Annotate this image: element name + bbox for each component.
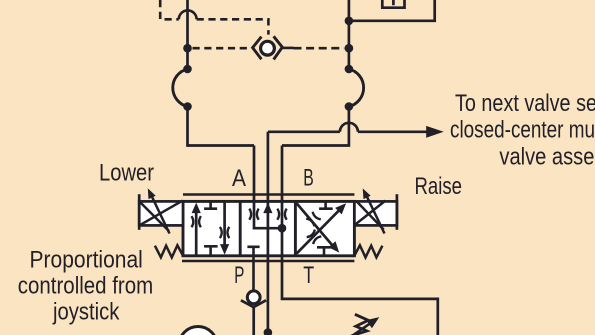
right solenoid end bar [396, 194, 399, 230]
svg-text:T: T [303, 262, 314, 289]
pilot line dashed right of check valve [294, 47, 345, 50]
cylinder stub top right [382, 0, 404, 8]
wire jump over right riser [340, 123, 358, 132]
svg-text:Proportional: Proportional [30, 247, 143, 274]
svg-text:valve asse: valve asse [499, 144, 594, 171]
node hose dots left riser [183, 65, 192, 74]
check valve CV2 seat [241, 300, 266, 307]
right position blocked stub bottom [317, 247, 331, 256]
valve position divider 2 [294, 201, 297, 255]
left solenoid cross stroke 1 [140, 202, 169, 231]
pilot line dashed top left [160, 0, 179, 19]
proportional valve long line bottom [182, 260, 354, 263]
center position blocked P stub [247, 247, 259, 291]
wire right riser upper [348, 0, 351, 69]
shuttle valve SV1 left seat [253, 37, 262, 60]
relief valve adjust arrow [352, 323, 371, 335]
valve body V1 [183, 201, 354, 255]
pump P1 [179, 327, 217, 335]
right position cross arrow 2 [297, 203, 334, 247]
pilot line jump over riser [179, 10, 197, 19]
spring left [155, 245, 183, 257]
right solenoid cross stroke 2 [355, 201, 386, 225]
wire port B / tank line through valve [282, 146, 438, 335]
spring right [355, 245, 383, 257]
left solenoid arrow Lower [151, 194, 170, 233]
left position up arrow [195, 213, 198, 256]
svg-text:controlled from: controlled from [18, 273, 153, 300]
shuttle valve SV1 right seat [274, 36, 283, 59]
pilot line dashed left of check valve [193, 47, 249, 50]
right position notch lower [307, 230, 322, 245]
center position notch on B [277, 209, 286, 220]
wire load-sense line [267, 132, 270, 333]
wire port A line into valve [254, 146, 282, 229]
left solenoid cross stroke 2 [140, 201, 183, 225]
check valve CV2 ball [247, 291, 260, 304]
svg-text:joystick: joystick [52, 299, 120, 326]
proportional valve long line top [183, 193, 354, 196]
hose arc right riser [349, 69, 364, 107]
svg-text:A: A [232, 165, 247, 192]
shuttle valve SV1 ball [261, 41, 275, 55]
svg-text:B: B [303, 165, 314, 192]
wire left riser upper [186, 0, 189, 69]
right position cross arrow 1 [297, 208, 341, 253]
svg-text:closed-center mu: closed-center mu [450, 116, 595, 143]
pilot line dashed to check valve [197, 19, 269, 34]
shuttle valve SV1 right outlet stub [282, 47, 293, 50]
left position notch 2 [220, 227, 229, 238]
proportional solenoid left box [139, 201, 183, 225]
right solenoid arrow Raise [366, 194, 385, 233]
left position notch 1 [192, 216, 201, 227]
center position notch on A [249, 209, 258, 220]
svg-text:Lower: Lower [99, 160, 154, 187]
left position down arrow [223, 201, 226, 245]
wire right riser lower to port B [282, 107, 349, 146]
check valve CV2 line [252, 307, 255, 335]
wire to next valve section [268, 130, 427, 133]
node riser-branch junction [345, 17, 354, 26]
center position sense arrow [263, 203, 272, 214]
wire cylinder branch top right [349, 0, 435, 21]
node hose dots right riser [345, 65, 354, 74]
right position blocked stub top [319, 201, 333, 208]
left position blocked stub bottom [204, 246, 218, 256]
svg-text:Raise: Raise [415, 173, 463, 200]
node pilot junction left riser [183, 44, 192, 53]
right solenoid cross stroke 1 [357, 201, 384, 229]
left position blocked stub top [204, 201, 217, 208]
node bottom junction [264, 328, 273, 335]
valve position divider 1 [239, 201, 242, 255]
node pilot junction right riser [345, 44, 354, 53]
wire left riser lower to port A [188, 107, 255, 146]
node junction A-B bridge [278, 224, 287, 233]
arrow to next valve [426, 126, 444, 138]
right position notch upper [306, 212, 321, 227]
svg-text:P: P [234, 262, 244, 289]
relief valve spring [354, 314, 368, 335]
left solenoid end bar [138, 194, 141, 230]
hose arc left riser [173, 69, 188, 107]
proportional solenoid right box [354, 201, 397, 225]
svg-text:To next valve se: To next valve se [455, 90, 595, 117]
